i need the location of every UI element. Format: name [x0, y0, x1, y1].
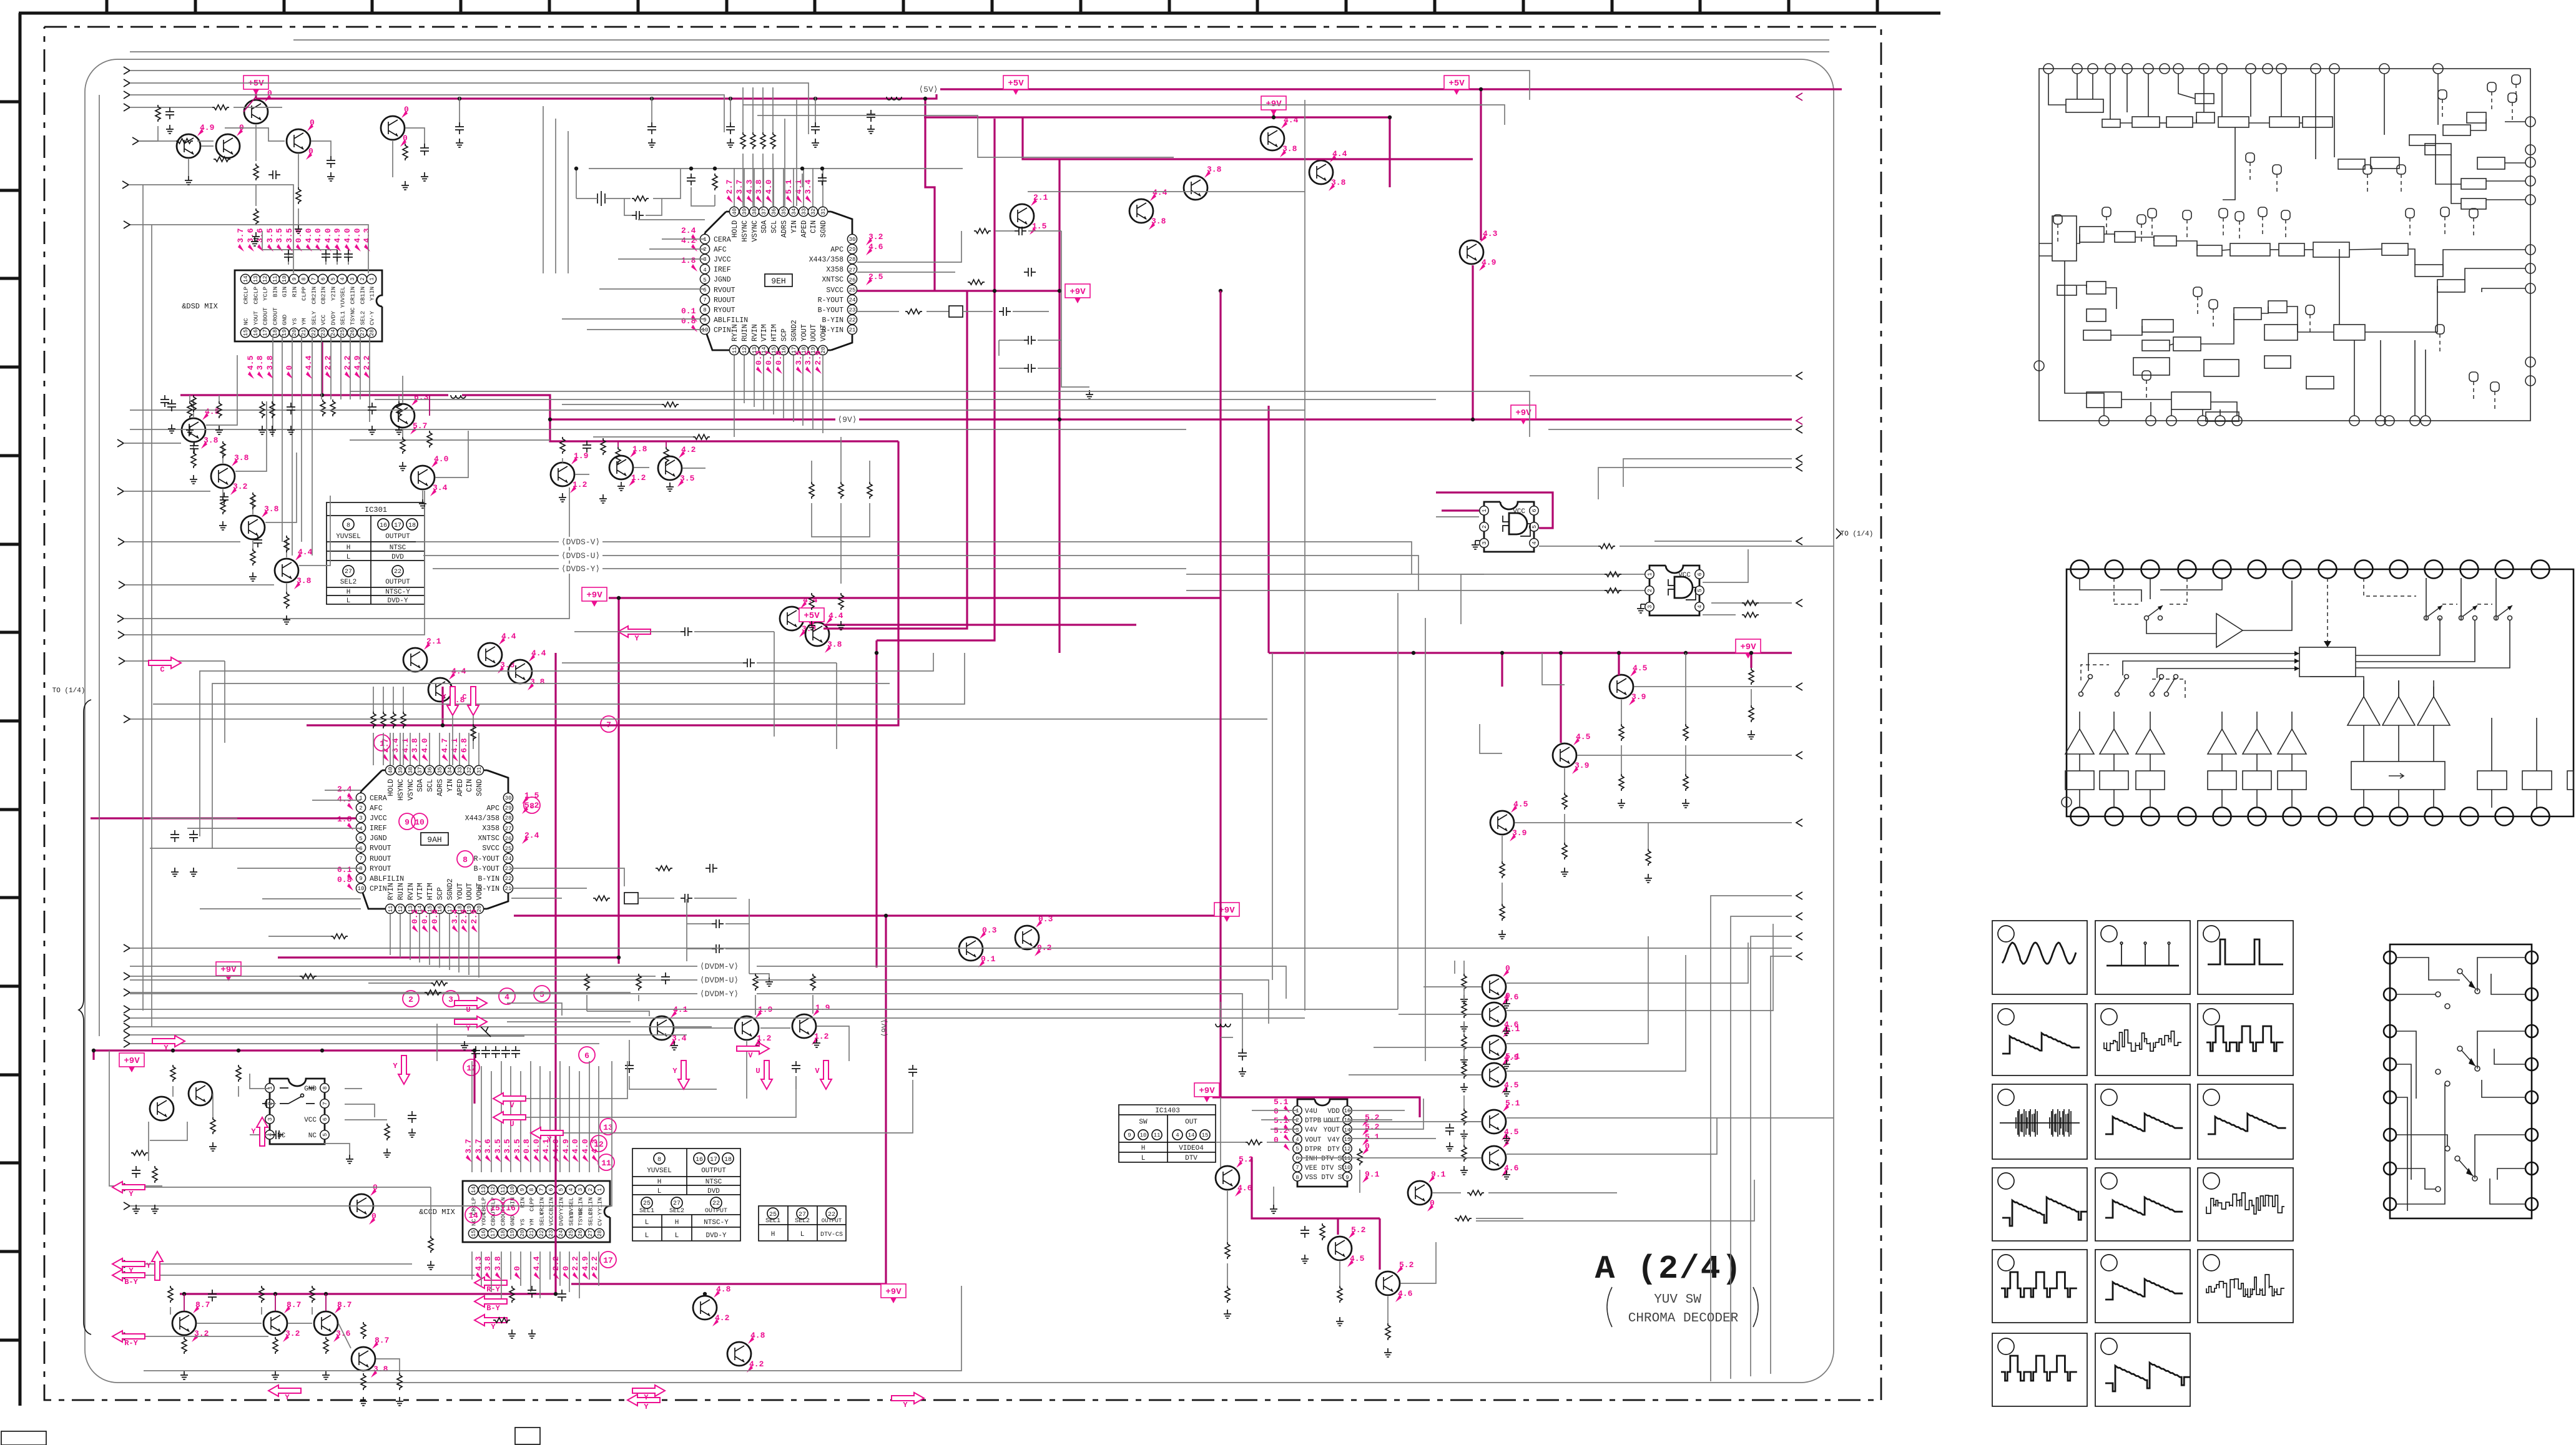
- svg-text:4: 4: [359, 826, 362, 832]
- svg-text:4.2: 4.2: [749, 1359, 764, 1369]
- svg-text:VOUT: VOUT: [1305, 1137, 1322, 1144]
- svg-text:2.9: 2.9: [469, 909, 479, 924]
- svg-text:33: 33: [801, 208, 807, 215]
- svg-text:6: 6: [1697, 572, 1703, 576]
- svg-text:2.2: 2.2: [571, 1256, 580, 1271]
- svg-text:APED: APED: [456, 779, 465, 796]
- svg-text:RVIN: RVIN: [407, 883, 415, 900]
- svg-text:26: 26: [505, 836, 512, 842]
- svg-text:30: 30: [849, 237, 856, 243]
- table DTV select: [759, 1206, 846, 1241]
- svg-text:NC: NC: [243, 318, 250, 325]
- svg-text:SELY: SELY: [311, 311, 318, 325]
- svg-text:2.7: 2.7: [725, 180, 734, 194]
- transistor Q28: [1015, 914, 1053, 956]
- svg-text:19: 19: [509, 1230, 516, 1237]
- svg-text:YOUT: YOUT: [456, 883, 465, 900]
- svg-text:32: 32: [810, 208, 817, 215]
- svg-text:SGND2: SGND2: [446, 878, 455, 900]
- svg-text:NC: NC: [308, 1132, 317, 1140]
- gate IC A: [1472, 502, 1538, 552]
- svg-text:CLPP: CLPP: [301, 287, 308, 301]
- svg-text:SCL: SCL: [770, 220, 779, 233]
- svg-text:11: 11: [732, 347, 738, 354]
- wiring middle-left region: [99, 95, 1418, 1049]
- svg-text:4: 4: [568, 1188, 574, 1191]
- svg-text:12: 12: [490, 1187, 496, 1193]
- svg-text:+9V: +9V: [124, 1056, 140, 1066]
- svg-text:4: 4: [340, 277, 346, 280]
- svg-text:ADRS: ADRS: [780, 220, 789, 238]
- waveform chart 5: [2095, 1004, 2190, 1075]
- dash-dot sheet frame: [44, 27, 1881, 1400]
- svg-text:7: 7: [539, 1188, 545, 1191]
- svg-text:0.8: 0.8: [681, 316, 696, 326]
- waveform chart 4: [1992, 1004, 2087, 1075]
- svg-text:27: 27: [345, 569, 352, 576]
- svg-text:5: 5: [1295, 1146, 1299, 1152]
- svg-text:0.1: 0.1: [337, 865, 352, 874]
- svg-text:16: 16: [1344, 1108, 1351, 1114]
- svg-text:GIN: GIN: [282, 287, 288, 297]
- svg-text:24: 24: [505, 856, 512, 862]
- svg-text:B-YIN: B-YIN: [478, 875, 499, 883]
- svg-text:12: 12: [398, 906, 404, 913]
- IC1403 DTV switch DIP16: [1274, 1097, 1380, 1187]
- table IC301 select: [632, 1149, 740, 1241]
- svg-text:5.1: 5.1: [1365, 1132, 1380, 1142]
- svg-text:3: 3: [359, 815, 362, 821]
- svg-text:Y: Y: [466, 1024, 471, 1033]
- svg-text:8: 8: [529, 1188, 535, 1191]
- svg-text:4.5: 4.5: [1633, 664, 1648, 673]
- svg-text:9: 9: [519, 1188, 526, 1191]
- svg-text:IC301: IC301: [365, 506, 387, 514]
- revision box middle: [515, 1428, 540, 1444]
- svg-text:3.2: 3.2: [233, 482, 248, 491]
- svg-text:SVCC: SVCC: [482, 845, 499, 853]
- svg-text:SGND2: SGND2: [790, 320, 799, 341]
- svg-text:3.8: 3.8: [827, 640, 842, 649]
- svg-text:SEL1: SEL1: [568, 1212, 575, 1226]
- svg-text:B-YIN: B-YIN: [822, 316, 843, 325]
- svg-text:APC: APC: [830, 246, 843, 254]
- svg-text:5.1: 5.1: [1505, 1052, 1520, 1061]
- svg-text:4.9: 4.9: [333, 228, 342, 243]
- svg-text:IC1403: IC1403: [1155, 1107, 1180, 1115]
- svg-text:3.8: 3.8: [1151, 217, 1166, 226]
- svg-text:CBOUT: CBOUT: [262, 307, 269, 325]
- svg-text:0: 0: [1274, 1135, 1279, 1145]
- svg-text:16: 16: [506, 1203, 516, 1213]
- svg-text:Y: Y: [644, 1393, 649, 1402]
- svg-text:2.5: 2.5: [868, 272, 883, 282]
- svg-text:Y: Y: [547, 1135, 552, 1144]
- svg-text:UOUT: UOUT: [1324, 1117, 1340, 1125]
- svg-text:1.9: 1.9: [815, 1003, 830, 1012]
- svg-text:4.1: 4.1: [450, 738, 460, 753]
- svg-text:28: 28: [505, 815, 512, 821]
- svg-text:RUOUT: RUOUT: [370, 855, 391, 863]
- svg-text:7: 7: [311, 277, 317, 280]
- svg-text:18: 18: [724, 1157, 732, 1163]
- svg-text:22: 22: [394, 569, 401, 576]
- svg-text:1: 1: [703, 237, 706, 243]
- svg-text:16: 16: [253, 330, 259, 336]
- svg-text:15: 15: [1202, 1132, 1209, 1139]
- svg-text:⟨9V⟩: ⟨9V⟩: [880, 1019, 889, 1037]
- svg-text:0.1: 0.1: [981, 954, 996, 964]
- svg-text:SEL2: SEL2: [587, 1212, 594, 1226]
- svg-text:4.6: 4.6: [868, 242, 883, 252]
- svg-text:V4Y: V4Y: [1327, 1137, 1340, 1144]
- svg-text:8: 8: [529, 801, 534, 811]
- IC 9EH QFP (chroma decoder): [681, 168, 883, 374]
- svg-text:VOUT: VOUT: [476, 883, 484, 900]
- svg-text:5.1: 5.1: [1505, 1024, 1520, 1034]
- svg-text:HTIM: HTIM: [770, 324, 779, 341]
- svg-text:TO (1/4): TO (1/4): [52, 687, 86, 695]
- svg-text:30: 30: [505, 795, 512, 801]
- svg-text:0.7: 0.7: [420, 909, 430, 924]
- svg-text:8: 8: [657, 1157, 661, 1163]
- svg-text:NC: NC: [277, 1132, 286, 1140]
- svg-text:28: 28: [597, 1230, 603, 1237]
- svg-text:3.9: 3.9: [1512, 828, 1527, 838]
- svg-text:9: 9: [359, 876, 362, 882]
- transistor Q30: [650, 1005, 688, 1047]
- svg-text:28: 28: [849, 257, 856, 263]
- svg-text:6: 6: [584, 1051, 589, 1060]
- svg-text:YUVSEL: YUVSEL: [336, 533, 361, 541]
- svg-text:3: 3: [703, 257, 706, 263]
- svg-text:4.3: 4.3: [337, 795, 352, 804]
- svg-text:0.8: 0.8: [522, 1139, 531, 1154]
- svg-text:3.5: 3.5: [794, 350, 804, 365]
- svg-text:SEL1: SEL1: [765, 1218, 780, 1225]
- svg-text:5.2: 5.2: [1351, 1225, 1366, 1235]
- transistor Q10: [391, 393, 429, 434]
- svg-text:RVIN: RVIN: [751, 324, 759, 341]
- svg-text:SEL1: SEL1: [639, 1208, 654, 1215]
- svg-text:4.5: 4.5: [1576, 732, 1591, 742]
- svg-text:L: L: [1141, 1155, 1146, 1162]
- svg-text:JGND: JGND: [370, 835, 387, 843]
- svg-text:IREF: IREF: [714, 266, 731, 274]
- svg-text:3: 3: [578, 1188, 584, 1191]
- svg-text:B-Y: B-Y: [124, 1278, 138, 1286]
- svg-text:0.3: 0.3: [982, 926, 997, 935]
- svg-text:4.0: 4.0: [434, 454, 449, 464]
- svg-text:Y: Y: [251, 1127, 256, 1136]
- svg-text:0: 0: [371, 1212, 376, 1221]
- waveform chart 6: [2198, 1004, 2293, 1075]
- svg-text:0.8: 0.8: [774, 350, 784, 365]
- svg-text:B-YOUT: B-YOUT: [474, 865, 500, 873]
- transistor Q13: [609, 444, 647, 486]
- svg-text:SW: SW: [1139, 1119, 1148, 1126]
- svg-text:4.0: 4.0: [764, 179, 774, 194]
- svg-text:6: 6: [1295, 1155, 1299, 1162]
- svg-text:17: 17: [490, 1230, 496, 1237]
- svg-text:JGND: JGND: [714, 276, 731, 284]
- svg-text:18: 18: [500, 1230, 506, 1237]
- svg-text:SCL: SCL: [426, 779, 435, 792]
- svg-text:8.7: 8.7: [287, 1300, 301, 1310]
- svg-text:Y1IN: Y1IN: [369, 287, 376, 301]
- svg-text:3: 3: [1482, 541, 1488, 544]
- svg-text:39: 39: [742, 208, 748, 215]
- svg-text:27: 27: [505, 826, 512, 832]
- waveform chart 8: [2095, 1084, 2190, 1159]
- svg-text:3: 3: [1295, 1127, 1299, 1134]
- svg-text:4: 4: [1697, 605, 1703, 608]
- svg-text:V4V: V4V: [1305, 1127, 1317, 1134]
- svg-text:TO (1/4): TO (1/4): [1841, 531, 1874, 538]
- svg-text:6: 6: [322, 1117, 328, 1120]
- svg-text:3.5: 3.5: [680, 474, 695, 483]
- svg-text:1.2: 1.2: [631, 473, 646, 482]
- transistor Q5: [381, 105, 409, 147]
- svg-text:OUT: OUT: [1185, 1119, 1197, 1126]
- svg-text:3.9: 3.9: [1631, 692, 1646, 702]
- svg-text:INH DTV SW: INH DTV SW: [1305, 1155, 1346, 1163]
- svg-text:+5V: +5V: [1448, 79, 1465, 89]
- svg-text:H: H: [675, 1219, 679, 1227]
- svg-text:+9V: +9V: [1199, 1086, 1215, 1096]
- svg-text:3: 3: [350, 277, 356, 280]
- svg-text:0: 0: [308, 147, 313, 156]
- transistor Q27: [1490, 800, 1528, 841]
- svg-text:Y2IN: Y2IN: [558, 1197, 565, 1212]
- svg-text:6: 6: [548, 1188, 554, 1191]
- svg-text:Y: Y: [146, 1261, 151, 1270]
- svg-text:12: 12: [1344, 1146, 1351, 1152]
- svg-text:XNTSC: XNTSC: [478, 835, 499, 843]
- svg-text:10: 10: [415, 818, 425, 827]
- transistor Q3: [177, 123, 215, 158]
- svg-text:8: 8: [347, 522, 350, 529]
- svg-text:RUOUT: RUOUT: [714, 296, 735, 305]
- svg-text:5.2: 5.2: [1399, 1260, 1414, 1270]
- svg-text:BIN: BIN: [272, 287, 279, 297]
- svg-text:18: 18: [408, 522, 416, 529]
- svg-text:4: 4: [1176, 1132, 1179, 1139]
- svg-text:SCP: SCP: [436, 887, 445, 900]
- svg-text:17: 17: [603, 1256, 613, 1265]
- svg-text:22: 22: [539, 1230, 545, 1237]
- svg-text:ABLFILIN: ABLFILIN: [714, 316, 748, 325]
- waveform chart 7: [1992, 1084, 2087, 1159]
- svg-text:4.2: 4.2: [681, 445, 696, 454]
- wiring top region: [122, 40, 1829, 630]
- transistor Q33: [150, 1097, 174, 1120]
- transistor Q50: [1482, 1099, 1520, 1140]
- svg-text:CV-Y: CV-Y: [369, 311, 376, 325]
- svg-text:3.8: 3.8: [1207, 165, 1222, 174]
- svg-text:0: 0: [1365, 1142, 1370, 1151]
- waveform chart 15: [2198, 1250, 2293, 1323]
- svg-text:GND: GND: [509, 1215, 516, 1226]
- svg-text:R-Y: R-Y: [124, 1339, 138, 1348]
- svg-text:Y1IN: Y1IN: [597, 1197, 604, 1212]
- svg-text:38: 38: [408, 767, 414, 774]
- svg-text:8: 8: [359, 866, 362, 872]
- svg-text:0.1: 0.1: [681, 306, 696, 316]
- svg-text:CIN: CIN: [810, 220, 818, 233]
- svg-text:5: 5: [359, 836, 362, 842]
- transistor Q22: [508, 649, 546, 690]
- waveform chart 10: [1992, 1168, 2087, 1241]
- svg-text:10: 10: [358, 886, 365, 892]
- svg-text:5.1: 5.1: [1274, 1097, 1289, 1107]
- svg-text:Y: Y: [672, 1067, 677, 1075]
- svg-text:CRCLP: CRCLP: [243, 287, 250, 305]
- svg-text:4.0: 4.0: [571, 1139, 580, 1154]
- svg-text:Y: Y: [634, 634, 639, 643]
- svg-text:Y: Y: [393, 1062, 398, 1070]
- svg-text:6.3: 6.3: [414, 393, 429, 402]
- transistor Q20: [1010, 193, 1048, 235]
- svg-text:8.7: 8.7: [337, 1300, 351, 1310]
- svg-text:Y: Y: [903, 1401, 908, 1409]
- table IC1403 truth: [1119, 1105, 1216, 1162]
- svg-text:CV-Y: CV-Y: [597, 1212, 604, 1226]
- svg-text:2: 2: [703, 247, 706, 253]
- svg-text:3: 3: [1647, 605, 1653, 608]
- svg-text:4.4: 4.4: [298, 547, 313, 557]
- transistor Q19: [1460, 229, 1498, 271]
- svg-text:NTSC: NTSC: [705, 1178, 722, 1186]
- svg-text:3.8: 3.8: [255, 355, 265, 370]
- svg-text:C: C: [160, 665, 164, 674]
- svg-text:4.5: 4.5: [1350, 1254, 1365, 1263]
- svg-text:31: 31: [820, 208, 827, 215]
- svg-text:L: L: [645, 1232, 649, 1240]
- svg-text:3.8: 3.8: [754, 179, 764, 194]
- svg-text:TSYNC: TSYNC: [578, 1208, 584, 1226]
- svg-text:6: 6: [703, 287, 706, 293]
- waveform chart 11: [2095, 1168, 2190, 1241]
- svg-text:DVD: DVD: [707, 1188, 720, 1195]
- transistor Q29: [959, 926, 997, 967]
- svg-text:YM: YM: [529, 1218, 536, 1226]
- svg-text:L: L: [347, 554, 351, 561]
- svg-text:23: 23: [505, 866, 512, 872]
- svg-text:JVCC: JVCC: [370, 815, 387, 823]
- svg-text:12: 12: [262, 276, 268, 283]
- svg-text:&DSD MIX: &DSD MIX: [182, 302, 218, 311]
- svg-text:CR1IN: CR1IN: [350, 287, 356, 305]
- transistor Q25: [1610, 664, 1648, 705]
- svg-text:9: 9: [292, 277, 298, 280]
- svg-text:2.9: 2.9: [460, 909, 469, 924]
- svg-text:RYIN: RYIN: [387, 883, 395, 900]
- svg-text:7: 7: [359, 856, 362, 862]
- svg-text:1.8: 1.8: [632, 444, 647, 454]
- svg-text:9EH: 9EH: [771, 277, 785, 286]
- svg-text:R-YOUT: R-YOUT: [818, 296, 844, 305]
- svg-text:4.4: 4.4: [1153, 188, 1168, 197]
- svg-text:3.8: 3.8: [410, 738, 420, 753]
- svg-text:8: 8: [463, 855, 468, 865]
- svg-text:VCC: VCC: [548, 1215, 555, 1226]
- svg-text:U: U: [509, 1120, 514, 1129]
- svg-text:SGND: SGND: [476, 779, 484, 796]
- svg-text:1: 1: [267, 1086, 273, 1089]
- svg-text:10: 10: [1344, 1165, 1351, 1171]
- transistor Q11: [411, 454, 449, 496]
- svg-text:X443/358: X443/358: [809, 256, 843, 264]
- svg-text:16: 16: [380, 522, 387, 529]
- svg-text:6: 6: [1531, 509, 1538, 512]
- svg-text:VCC: VCC: [320, 315, 327, 325]
- IC DSD MIX DIP28: [182, 228, 382, 379]
- svg-text:1.2: 1.2: [573, 480, 587, 489]
- svg-text:CB1IN: CB1IN: [360, 287, 366, 305]
- svg-text:SEL2: SEL2: [340, 579, 356, 586]
- svg-text:+5V: +5V: [804, 611, 820, 621]
- svg-text:+9V: +9V: [1069, 287, 1086, 297]
- svg-text:SVCC: SVCC: [826, 287, 843, 295]
- svg-text:YUVSEL: YUVSEL: [340, 287, 347, 308]
- svg-text:YOUT: YOUT: [1324, 1127, 1340, 1134]
- sheet border with ruler ticks: [0, 0, 1940, 1406]
- svg-text:40: 40: [388, 767, 394, 774]
- svg-text:37: 37: [417, 767, 423, 774]
- svg-text:4.5: 4.5: [1513, 800, 1528, 809]
- svg-text:10: 10: [509, 1187, 516, 1193]
- svg-text:3.8: 3.8: [234, 453, 249, 463]
- svg-text:15: 15: [1344, 1117, 1351, 1124]
- svg-text:6.8: 6.8: [460, 738, 469, 753]
- svg-text:0: 0: [403, 134, 408, 143]
- svg-text:37: 37: [761, 208, 767, 215]
- svg-text:4.4: 4.4: [531, 649, 546, 658]
- svg-text:13: 13: [481, 1187, 487, 1193]
- svg-text:0.2: 0.2: [410, 909, 420, 924]
- svg-text:4.0: 4.0: [353, 228, 362, 243]
- svg-text:SELY: SELY: [539, 1212, 546, 1226]
- svg-text:4.0: 4.0: [323, 228, 333, 243]
- svg-text:RVOUT: RVOUT: [714, 287, 735, 295]
- waveform chart 12: [2198, 1168, 2293, 1241]
- svg-text:4.4: 4.4: [501, 632, 516, 641]
- svg-text:3.7: 3.7: [236, 228, 245, 243]
- transistor Q4: [287, 118, 315, 160]
- svg-text:15: 15: [243, 330, 249, 336]
- svg-text:9.1: 9.1: [1365, 1170, 1380, 1179]
- svg-text:2.9: 2.9: [814, 350, 823, 365]
- svg-text:⟨DVDS-U⟩: ⟨DVDS-U⟩: [561, 551, 600, 561]
- transistor Q53: [805, 611, 843, 653]
- svg-text:DTV: DTV: [1185, 1155, 1197, 1162]
- svg-text:22: 22: [712, 1200, 720, 1207]
- CCD MIX circled callouts: [465, 1119, 616, 1268]
- svg-text:15: 15: [490, 1203, 500, 1213]
- table IC301 truth: [327, 502, 425, 605]
- svg-text:NTSC-Y: NTSC-Y: [704, 1219, 729, 1227]
- transistor Q35: [350, 1183, 378, 1225]
- svg-text:21: 21: [849, 327, 856, 333]
- svg-text:4.0: 4.0: [581, 1139, 590, 1154]
- svg-text:4.1: 4.1: [401, 738, 410, 753]
- svg-text:2.4: 2.4: [524, 831, 539, 840]
- svg-text:21: 21: [505, 886, 512, 892]
- svg-text:7: 7: [703, 297, 706, 303]
- svg-text:RYIN: RYIN: [731, 324, 739, 341]
- svg-text:10: 10: [282, 276, 288, 283]
